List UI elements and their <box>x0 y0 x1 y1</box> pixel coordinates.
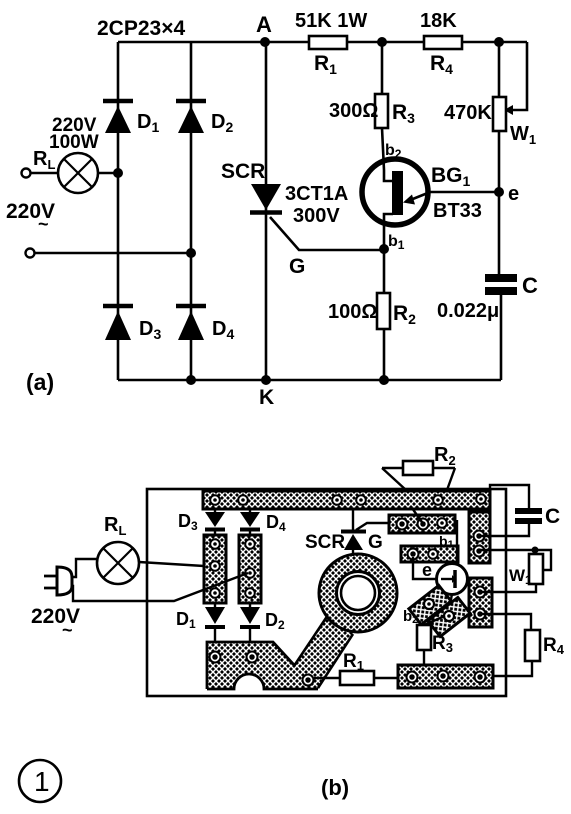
svg-text:220V: 220V <box>31 605 80 628</box>
node R4-W1 <box>494 37 504 47</box>
wire gate G <box>270 217 384 278</box>
wire lamp-branch <box>98 168 123 178</box>
svg-text:~: ~ <box>38 214 49 234</box>
potentiometer W1 (pcb) <box>479 547 551 593</box>
label (b) <box>321 775 349 800</box>
wire terminal1-lamp <box>31 172 58 175</box>
svg-text:G: G <box>368 532 383 553</box>
svg-text:470K: 470K <box>444 102 492 124</box>
board outline <box>147 489 506 696</box>
diode D2 (pcb) <box>240 603 285 644</box>
diode D4 <box>176 306 234 342</box>
bottom right copper strip <box>398 665 493 688</box>
wire bottom bus K <box>118 379 501 382</box>
diode D4 (pcb) <box>240 509 286 536</box>
svg-text:e: e <box>508 183 519 205</box>
wire lamp to D3 pad <box>139 562 204 566</box>
resistor R3 (pcb) <box>417 616 453 666</box>
capacitor C (pcb) <box>479 485 560 536</box>
resistor R3 300ohm <box>329 42 415 128</box>
D3 pad column <box>204 535 226 603</box>
label (a) <box>26 369 54 395</box>
label 220V mains <box>6 200 55 234</box>
pad hole strip 6 <box>476 494 486 504</box>
potentiometer W1 470K <box>444 42 536 192</box>
wire SCR branch <box>265 42 268 380</box>
diode D3 (pcb) <box>178 509 225 536</box>
lamp RL 220V 100W <box>33 115 99 193</box>
svg-text:(b): (b) <box>321 775 349 800</box>
b2 pad 1 <box>409 585 451 624</box>
diode D1 (pcb) <box>176 603 225 644</box>
svg-text:(a): (a) <box>26 369 54 395</box>
wire emitter to node e <box>428 191 499 194</box>
plug <box>44 567 72 595</box>
svg-text:~: ~ <box>62 620 73 640</box>
figure number 1 <box>19 760 61 802</box>
svg-text:2CP23×4: 2CP23×4 <box>97 17 185 40</box>
transistor BG1 (pcb, bottom view) <box>422 520 468 610</box>
pad hole strip 4 <box>356 495 366 505</box>
resistor R4 (pcb) <box>480 614 565 676</box>
terminal 2 <box>26 249 35 258</box>
node b1 <box>379 244 389 254</box>
pad hole strip 1 <box>210 495 220 505</box>
right pad B (lower) <box>469 578 492 627</box>
copper trace to SCR pad <box>294 615 353 689</box>
SCR symbol (pcb) <box>305 509 383 556</box>
svg-text:A: A <box>256 12 272 37</box>
svg-text:G: G <box>289 255 305 278</box>
top copper strip <box>203 491 490 509</box>
svg-text:BT33: BT33 <box>433 200 482 222</box>
pad hole strip 3 <box>332 495 342 505</box>
wire gate to b1 strip <box>356 523 389 530</box>
junction D4 bottom <box>186 375 196 385</box>
node R1-R3 <box>377 37 387 47</box>
svg-text:C: C <box>545 505 560 528</box>
wire right jog to W1 wiper <box>504 42 527 115</box>
wire e lead to strip <box>413 557 437 579</box>
wire plug to D4 pad <box>71 573 248 601</box>
svg-text:300Ω: 300Ω <box>329 100 378 122</box>
bottom copper blob <box>207 642 318 689</box>
svg-text:18K: 18K <box>420 10 457 32</box>
lamp RL (pcb) <box>97 514 139 584</box>
resistor R1 51K 1W <box>295 10 367 77</box>
wire second vertical branch (D2/D4) <box>190 42 193 380</box>
svg-text:3CT1A: 3CT1A <box>285 183 348 205</box>
svg-text:100Ω: 100Ω <box>328 301 377 323</box>
svg-text:SCR: SCR <box>305 532 345 553</box>
SCR Q1 3CT1A 300V <box>221 160 348 227</box>
b2 pad 2 <box>428 597 470 636</box>
resistor R4 18K <box>420 10 462 77</box>
capacitor C 0.022u <box>437 192 538 380</box>
svg-text:51K 1W: 51K 1W <box>295 10 367 32</box>
svg-text:1: 1 <box>34 766 50 797</box>
junction R2 bottom <box>379 375 389 385</box>
svg-text:300V: 300V <box>293 205 340 227</box>
resistor R2 (pcb) <box>382 444 456 490</box>
svg-text:100W: 100W <box>49 132 99 153</box>
node A <box>256 12 272 47</box>
label 220V mains (pcb) <box>31 605 80 640</box>
pad hole strip 5 <box>433 495 443 505</box>
b1 copper strip <box>389 515 455 551</box>
svg-text:0.022μ: 0.022μ <box>437 300 499 322</box>
label 2CP23x4 <box>97 17 185 40</box>
resistor R2 100ohm <box>328 249 416 380</box>
diode D3 <box>103 306 161 342</box>
wire left vertical branch (D1/D3) <box>117 42 120 380</box>
svg-text:K: K <box>259 386 274 409</box>
terminal 1 <box>22 169 31 178</box>
wire plug to lamp <box>71 559 97 577</box>
transistor U1 BG1 BT33 (UJT) <box>362 128 482 252</box>
resistor R1 (pcb) <box>314 651 398 685</box>
diode D1 <box>103 101 159 135</box>
e copper strip <box>401 546 458 562</box>
pad hole strip 2 <box>238 495 248 505</box>
node K <box>259 375 274 409</box>
wire terminal2-branch <box>35 248 196 258</box>
svg-text:SCR: SCR <box>221 160 265 183</box>
node e <box>494 183 519 205</box>
right pad A (upper) <box>469 512 490 563</box>
wire top bus A <box>118 41 527 44</box>
svg-text:C: C <box>522 273 538 298</box>
SCR mounting pad (donut) <box>319 554 397 632</box>
svg-text:e: e <box>422 560 432 580</box>
D4 pad column <box>239 535 261 603</box>
diode D2 <box>176 101 233 135</box>
R2 lead into b1 strip <box>412 508 424 525</box>
